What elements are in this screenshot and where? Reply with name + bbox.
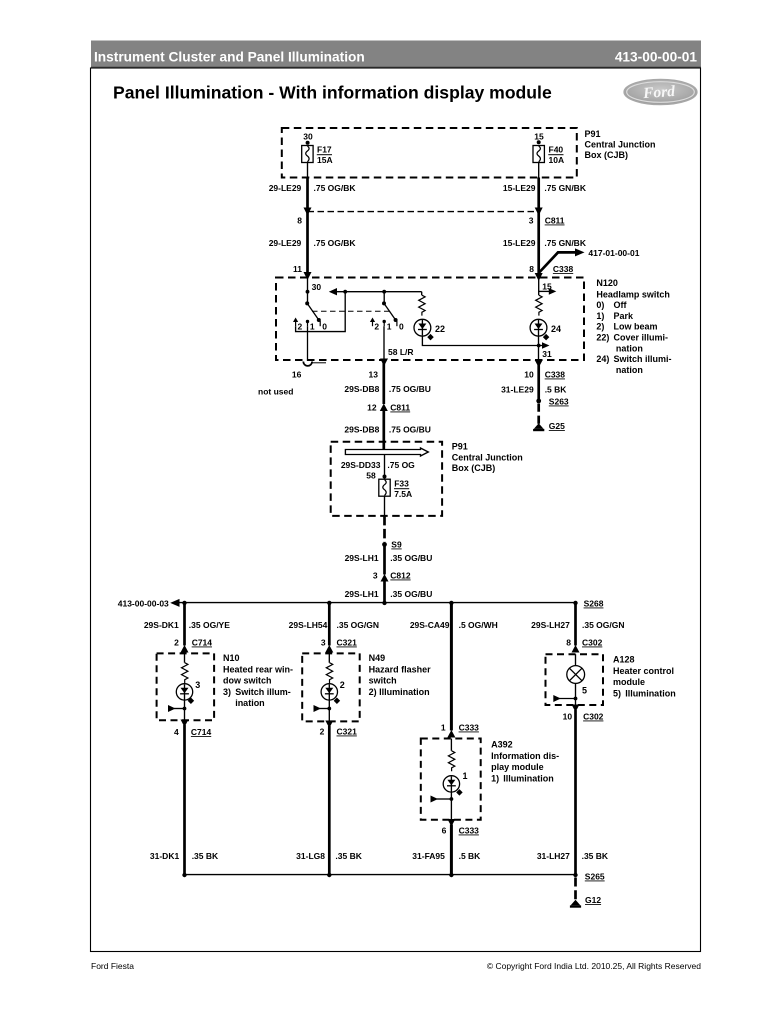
junction arrow right — [542, 342, 550, 349]
node F40 top — [537, 140, 541, 144]
svg-text:Low beam: Low beam — [614, 322, 658, 332]
node lamp24 bottom — [537, 344, 541, 348]
lamp LED 2 — [321, 684, 337, 700]
svg-text:S268: S268 — [584, 599, 604, 609]
wire 29S-DK1 — [183, 603, 186, 646]
svg-text:N10: N10 — [223, 653, 240, 663]
bottom ground bus — [185, 874, 576, 876]
connector line C811 — [308, 211, 539, 213]
wire F40 to box edge — [538, 163, 540, 178]
svg-text:.75 GN/BK: .75 GN/BK — [544, 183, 586, 193]
node b2 — [327, 601, 331, 605]
svg-text:3: 3 — [195, 680, 200, 690]
svg-text:C338: C338 — [545, 370, 566, 380]
svg-text:413-00-00-03: 413-00-00-03 — [118, 599, 169, 609]
svg-text:.35 BK: .35 BK — [335, 851, 362, 861]
node b1 — [182, 601, 186, 605]
svg-text:N49: N49 — [369, 653, 386, 663]
svg-text:1: 1 — [441, 723, 446, 733]
svg-text:.5 OG/WH: .5 OG/WH — [459, 620, 498, 630]
svg-text:C302: C302 — [583, 712, 604, 722]
fuse F33 — [379, 479, 390, 496]
pin 10 arrow out — [535, 360, 543, 368]
switch N49 box — [302, 653, 360, 721]
connector arrow into N120 — [304, 272, 312, 280]
splice S268 — [573, 601, 577, 605]
svg-text:31-DK1: 31-DK1 — [150, 851, 180, 861]
wire 29-LE29 lower — [306, 212, 309, 274]
branch arrow right at 15 — [539, 290, 551, 292]
svg-text:dow switch: dow switch — [223, 676, 272, 686]
connector arrow C811 pin12 up — [380, 404, 388, 412]
lamp LED 24 — [530, 319, 547, 336]
wire into N49 — [328, 653, 330, 662]
svg-text:C321: C321 — [337, 638, 358, 648]
svg-text:15-LE29: 15-LE29 — [503, 238, 536, 248]
connector arrow C811 pin8 — [304, 208, 312, 216]
svg-text:S9: S9 — [391, 540, 402, 550]
svg-text:2): 2) — [596, 322, 604, 332]
wire pin15 down — [538, 278, 540, 296]
svg-text:.5 BK: .5 BK — [459, 851, 482, 861]
svg-text:.75 OG/BK: .75 OG/BK — [314, 238, 357, 248]
svg-text:.35 OG/BU: .35 OG/BU — [390, 589, 432, 599]
svg-text:Central Junction: Central Junction — [452, 452, 523, 462]
svg-text:29S-LH1: 29S-LH1 — [345, 553, 379, 563]
bus bar arrow — [345, 448, 428, 456]
svg-text:.35 OG/GN: .35 OG/GN — [337, 620, 380, 630]
svg-text:C714: C714 — [192, 638, 213, 648]
svg-text:12: 12 — [367, 403, 377, 413]
svg-text:58 L/R: 58 L/R — [388, 347, 414, 357]
node riser 2 — [382, 290, 386, 294]
connector arrow C812 pin3 up — [381, 574, 389, 582]
wire 31-DK1 — [183, 725, 186, 875]
switch 1 contact 2 with arrow — [295, 321, 297, 327]
svg-text:C811: C811 — [390, 403, 410, 413]
svg-text:.35 OG/GN: .35 OG/GN — [582, 620, 625, 630]
internal arrow A392 — [431, 796, 439, 803]
svg-text:Information dis-: Information dis- — [491, 751, 559, 761]
module A392 box — [421, 739, 481, 820]
feed wire arrow left — [329, 288, 337, 295]
svg-text:P91: P91 — [452, 442, 468, 452]
svg-text:24: 24 — [551, 324, 561, 334]
svg-text:31-FA95: 31-FA95 — [412, 851, 445, 861]
svg-text:C812: C812 — [390, 571, 411, 581]
svg-text:0: 0 — [399, 322, 404, 332]
resistor N10 — [182, 663, 188, 683]
connector arrow C811 pin3 — [535, 208, 543, 216]
node above F33 — [383, 475, 387, 479]
switch N10 box — [157, 653, 215, 720]
svg-text:G12: G12 — [585, 895, 601, 905]
svg-text:play module: play module — [491, 762, 544, 772]
mechanical link dashed — [312, 310, 390, 312]
svg-text:5): 5) — [613, 688, 621, 698]
connector arrow C321 pin2 down — [325, 721, 333, 729]
ground G12 — [571, 900, 581, 906]
wire lamp to bottom A128 — [575, 683, 577, 705]
lamp X A128 — [567, 666, 585, 684]
svg-text:ination: ination — [235, 698, 265, 708]
resistor 24 — [536, 295, 542, 315]
connector arrow C321 pin3 up — [325, 645, 333, 653]
svg-text:A128: A128 — [613, 655, 635, 665]
svg-text:8: 8 — [566, 638, 571, 648]
svg-text:Heated rear win-: Heated rear win- — [223, 664, 293, 674]
wire 15-LE29 lower — [537, 212, 540, 278]
svg-text:C338: C338 — [553, 264, 574, 274]
svg-text:0): 0) — [596, 300, 604, 310]
svg-text:1): 1) — [596, 311, 604, 321]
svg-text:.5 BK: .5 BK — [545, 385, 568, 395]
wire 31-LE29 — [537, 365, 540, 401]
svg-text:S265: S265 — [585, 872, 605, 882]
svg-text:15A: 15A — [317, 155, 333, 165]
svg-text:29S-DB8: 29S-DB8 — [344, 384, 379, 394]
svg-text:F33: F33 — [394, 479, 409, 489]
wire 29S-LH54 — [328, 603, 331, 646]
svg-text:2: 2 — [374, 322, 379, 332]
svg-text:29-LE29: 29-LE29 — [269, 238, 302, 248]
header bar — [91, 41, 701, 69]
connector arrow C714 pin2 up — [181, 645, 189, 653]
svg-text:N120: N120 — [596, 278, 618, 288]
wire 31-FA95 — [450, 825, 453, 876]
wire lamp22 bottom to lamp24 — [422, 336, 545, 345]
lamp LED 3 — [176, 684, 192, 700]
switch 1 contact 0 — [319, 321, 321, 326]
svg-text:3: 3 — [529, 216, 534, 226]
diamond 22 — [427, 334, 434, 341]
svg-text:29S-LH1: 29S-LH1 — [345, 589, 379, 599]
svg-text:© Copyright Ford India Ltd. 20: © Copyright Ford India Ltd. 2010.25, All… — [487, 961, 701, 971]
svg-text:C333: C333 — [459, 723, 480, 733]
svg-text:24): 24) — [596, 354, 609, 364]
svg-text:C333: C333 — [459, 826, 480, 836]
svg-text:Illumination: Illumination — [625, 688, 676, 698]
svg-text:F17: F17 — [317, 145, 332, 155]
svg-text:31-LH27: 31-LH27 — [537, 851, 570, 861]
svg-text:Off: Off — [614, 300, 628, 310]
svg-text:5: 5 — [582, 686, 587, 696]
connector arrow C302 pin8 up — [572, 645, 580, 653]
svg-text:Central Junction: Central Junction — [585, 140, 656, 150]
svg-text:Headlamp switch: Headlamp switch — [596, 289, 670, 299]
svg-text:.35 OG/YE: .35 OG/YE — [189, 620, 230, 630]
svg-text:10: 10 — [563, 712, 573, 722]
svg-text:3): 3) — [223, 687, 231, 697]
svg-text:58: 58 — [366, 471, 376, 481]
svg-text:7.5A: 7.5A — [394, 489, 412, 499]
node riser 1 — [343, 290, 347, 294]
svg-text:Ford: Ford — [642, 83, 676, 102]
svg-text:Cover illumi-: Cover illumi- — [614, 333, 669, 343]
svg-text:10A: 10A — [549, 155, 565, 165]
svg-text:A392: A392 — [491, 740, 513, 750]
diamond N10 — [188, 698, 195, 705]
resistor A392 — [448, 751, 454, 771]
svg-text:413-00-00-01: 413-00-00-01 — [615, 50, 698, 65]
svg-text:1: 1 — [463, 771, 468, 781]
svg-text:.35 OG/BU: .35 OG/BU — [390, 553, 432, 563]
svg-text:11: 11 — [293, 264, 302, 274]
svg-text:417-01-00-01: 417-01-00-01 — [588, 248, 639, 258]
diamond N49 — [334, 698, 341, 705]
svg-text:Switch illumi-: Switch illumi- — [614, 354, 672, 364]
svg-text:8: 8 — [297, 216, 302, 226]
switch 1 contact 1 — [307, 321, 309, 326]
svg-text:nation: nation — [616, 343, 643, 353]
svg-text:29S-DK1: 29S-DK1 — [144, 620, 179, 630]
svg-text:Park: Park — [614, 311, 635, 321]
node g2 — [327, 873, 331, 877]
diamond 24 — [543, 334, 550, 341]
diamond A392 — [456, 789, 463, 796]
connector arrow into N120 right — [535, 273, 543, 281]
connector arrow C333 pin6 down — [447, 819, 455, 827]
wire 29S-DB8 lower — [382, 411, 385, 450]
svg-text:31: 31 — [542, 349, 552, 359]
svg-text:2) Illumination: 2) Illumination — [369, 687, 430, 697]
svg-text:29S-LH27: 29S-LH27 — [531, 620, 570, 630]
svg-text:.75 OG: .75 OG — [387, 460, 415, 470]
wire 15-LE29 upper — [537, 178, 540, 209]
svg-text:1: 1 — [387, 322, 392, 332]
svg-text:Switch illum-: Switch illum- — [235, 687, 291, 697]
svg-text:Box (CJB): Box (CJB) — [452, 463, 496, 473]
switch 2 lever — [384, 303, 396, 320]
module A128 box — [546, 654, 604, 705]
svg-text:29-LE29: 29-LE29 — [269, 183, 302, 193]
internal arrow N10 — [168, 705, 176, 712]
fuse F40 — [533, 146, 544, 163]
svg-text:3: 3 — [321, 638, 326, 648]
svg-text:.35 BK: .35 BK — [192, 851, 219, 861]
svg-text:13: 13 — [369, 370, 379, 380]
svg-text:C714: C714 — [191, 727, 212, 737]
svg-text:10: 10 — [524, 370, 534, 380]
svg-text:22: 22 — [435, 324, 445, 334]
node g1 — [182, 873, 186, 877]
node g3 — [449, 873, 453, 877]
svg-text:30: 30 — [312, 282, 322, 292]
switch 2 contact 2 with arrow — [372, 321, 374, 327]
svg-text:29S-DD33: 29S-DD33 — [341, 460, 381, 470]
node b3 — [449, 601, 453, 605]
svg-text:.75 OG/BU: .75 OG/BU — [389, 384, 431, 394]
svg-text:S263: S263 — [549, 397, 569, 407]
svg-text:C302: C302 — [582, 638, 603, 648]
switch 1 bottom rail — [296, 292, 346, 332]
wire 29S-LH27 — [574, 603, 577, 646]
pin 13 arrow out — [380, 359, 388, 367]
svg-text:F40: F40 — [549, 145, 564, 155]
svg-text:1: 1 — [310, 322, 315, 332]
ground G25 — [534, 423, 544, 429]
wire dashed to G25 — [537, 404, 540, 425]
wire 29S-CA49 — [450, 603, 453, 731]
svg-text:switch: switch — [369, 676, 397, 686]
node center — [382, 601, 386, 605]
svg-text:31-LG8: 31-LG8 — [296, 851, 325, 861]
wire 29S-LH1 lower — [383, 582, 386, 604]
svg-text:31-LE29: 31-LE29 — [501, 385, 534, 395]
switch 2 contact 0 — [396, 321, 398, 326]
switch 2 contact 1 — [383, 321, 385, 326]
svg-text:P91: P91 — [585, 129, 601, 139]
not used hook — [303, 362, 312, 366]
wire F33 to box bottom — [384, 496, 386, 516]
svg-text:15: 15 — [534, 132, 544, 142]
svg-text:.75 GN/BK: .75 GN/BK — [544, 238, 586, 248]
svg-text:2: 2 — [174, 638, 179, 648]
svg-text:C321: C321 — [337, 727, 358, 737]
wire 29S-DD33 — [384, 455, 386, 480]
resistor N49 — [326, 663, 332, 683]
svg-text:Ford Fiesta: Ford Fiesta — [91, 961, 134, 971]
svg-text:22): 22) — [596, 333, 609, 343]
wire F17 to box edge — [307, 163, 309, 178]
switch 2 pivot — [382, 301, 386, 305]
svg-text:6: 6 — [442, 826, 447, 836]
CJB P91 top box — [282, 128, 577, 178]
node F17 top — [306, 141, 310, 145]
switch 1 pivot node — [305, 301, 309, 305]
svg-text:Box (CJB): Box (CJB) — [585, 150, 629, 160]
svg-text:G25: G25 — [549, 421, 565, 431]
wire 29-LE29 upper — [306, 178, 309, 209]
wire pin30 down to pivot — [307, 278, 309, 304]
svg-text:Instrument Cluster and Panel I: Instrument Cluster and Panel Illuminatio… — [94, 50, 365, 65]
svg-text:.35 BK: .35 BK — [582, 851, 609, 861]
svg-text:15-LE29: 15-LE29 — [503, 183, 536, 193]
wire 29S-DB8 upper — [382, 362, 385, 404]
connector arrow C302 pin10 down — [572, 705, 580, 713]
wire contact1 sw2 down 58 L/R — [383, 326, 385, 360]
svg-text:2: 2 — [340, 680, 345, 690]
svg-text:not used: not used — [258, 387, 293, 397]
wire 31-LH27 — [574, 710, 577, 875]
svg-text:4: 4 — [174, 727, 179, 737]
svg-text:.75 OG/BU: .75 OG/BU — [389, 424, 431, 434]
wire 31-LG8 — [328, 726, 331, 875]
headlamp switch N120 box — [276, 278, 584, 361]
switch 2 riser — [383, 292, 385, 304]
internal arrow A128 — [553, 695, 561, 702]
splice S265 — [573, 873, 577, 877]
connector arrow C714 pin4 down — [181, 720, 189, 728]
splice S9 — [382, 542, 387, 547]
svg-text:nation: nation — [616, 365, 643, 375]
svg-text:2: 2 — [298, 322, 303, 332]
splice S263 — [536, 399, 541, 404]
wire into N10 — [184, 653, 186, 662]
svg-text:Illumination: Illumination — [503, 773, 554, 783]
svg-text:1): 1) — [491, 773, 499, 783]
svg-text:Panel Illumination - With info: Panel Illumination - With information di… — [113, 83, 552, 103]
svg-text:0: 0 — [322, 322, 327, 332]
svg-text:29S-CA49: 29S-CA49 — [410, 620, 450, 630]
wire dashed to G12 — [574, 878, 577, 902]
wire into A128 — [575, 654, 577, 665]
feed wire horizontal — [336, 291, 422, 293]
wire 29S-LH1 upper — [383, 546, 386, 575]
svg-text:Hazard flasher: Hazard flasher — [369, 664, 432, 674]
connector arrow C333 pin1 up — [447, 730, 455, 738]
svg-text:module: module — [613, 677, 645, 687]
CJB P91 lower box — [331, 442, 442, 516]
wire to S9 dashed bold — [383, 516, 386, 542]
svg-text:3: 3 — [373, 571, 378, 581]
svg-text:16: 16 — [292, 370, 302, 380]
svg-text:2: 2 — [320, 727, 325, 737]
svg-text:29S-LH54: 29S-LH54 — [289, 620, 328, 630]
resistor 22 — [419, 295, 425, 315]
node on pin30 wire — [306, 290, 310, 294]
svg-text:C811: C811 — [545, 216, 565, 226]
lamp LED 1 — [443, 776, 459, 792]
svg-text:29S-DB8: 29S-DB8 — [344, 424, 379, 434]
svg-text:30: 30 — [303, 132, 313, 142]
svg-text:8: 8 — [529, 264, 534, 274]
resistor lamp22 feed elbow — [421, 292, 423, 296]
content frame — [91, 68, 701, 952]
wire into A392 — [450, 739, 452, 751]
lamp LED 22 — [414, 319, 431, 336]
wire contact1 sw1 down to pin 16 — [307, 326, 309, 361]
internal arrow N49 — [314, 705, 322, 712]
svg-text:.75 OG/BK: .75 OG/BK — [314, 183, 357, 193]
fuse F17 — [302, 146, 313, 163]
switch 1 lever — [307, 303, 319, 320]
svg-text:Heater control: Heater control — [613, 666, 674, 676]
wire branch to 417-01-00-01 — [539, 252, 577, 273]
